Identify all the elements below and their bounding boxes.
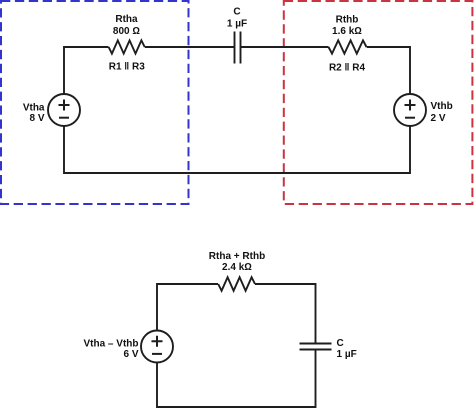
svg-text:R1 ‖ R3: R1 ‖ R3	[109, 62, 146, 73]
svg-text:2.4 kΩ: 2.4 kΩ	[222, 262, 252, 273]
svg-text:1 µF: 1 µF	[337, 349, 357, 360]
svg-text:1 µF: 1 µF	[227, 19, 247, 30]
svg-text:800 Ω: 800 Ω	[113, 26, 140, 37]
svg-text:C: C	[233, 7, 240, 18]
svg-text:2 V: 2 V	[431, 113, 446, 124]
svg-text:Rtha: Rtha	[115, 14, 138, 25]
svg-text:Rtha + Rthb: Rtha + Rthb	[209, 251, 265, 262]
svg-text:C: C	[337, 338, 344, 349]
svg-text:8 V: 8 V	[29, 113, 44, 124]
svg-text:Rthb: Rthb	[336, 15, 359, 26]
svg-text:R2 ‖ R4: R2 ‖ R4	[329, 63, 366, 74]
svg-text:Vtha: Vtha	[23, 103, 45, 114]
svg-text:Vtha – Vthb: Vtha – Vthb	[83, 339, 138, 350]
svg-text:6 V: 6 V	[123, 349, 138, 360]
svg-text:Vthb: Vthb	[431, 101, 453, 112]
svg-text:1.6 kΩ: 1.6 kΩ	[332, 26, 362, 37]
